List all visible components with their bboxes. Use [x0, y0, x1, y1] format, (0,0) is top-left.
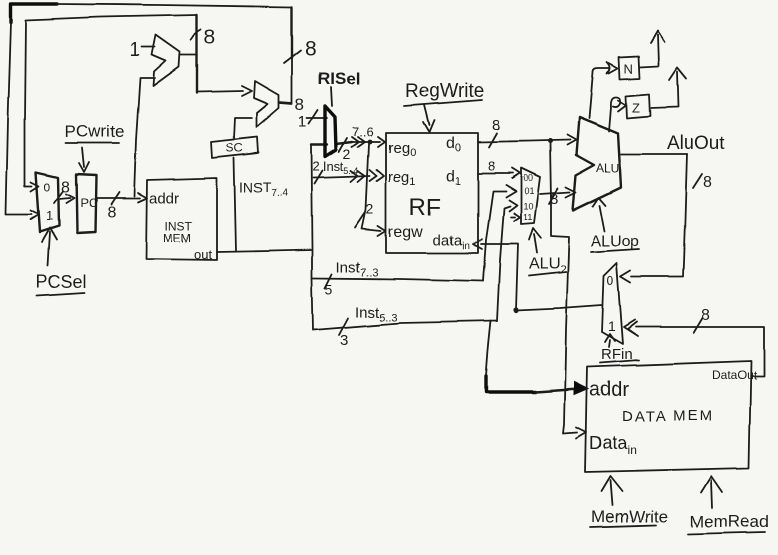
wire adder A2 output with label 8: [279, 95, 304, 114]
flag Z box: [626, 94, 650, 118]
wire instruction bus vertical: [311, 146, 313, 330]
wire ALU2 mux output to ALU input b, width 8: [540, 187, 576, 208]
wire RISel mux input 1: [298, 110, 327, 131]
register file RF: [386, 133, 478, 253]
wire ALU2 mux input 11 stub: [511, 213, 520, 221]
label AluOut: [667, 133, 726, 154]
svg-text:ALU: ALU: [596, 161, 619, 175]
svg-text:1: 1: [130, 40, 141, 61]
wire PC value up to adder A1 lower input: [134, 78, 155, 196]
svg-text:8: 8: [295, 95, 304, 114]
svg-text:PCwrite: PCwrite: [65, 122, 125, 141]
svg-text:RISel: RISel: [318, 69, 361, 88]
svg-text:8: 8: [492, 117, 500, 134]
label Inst 5..3: [355, 304, 398, 324]
label RISel with leader line: [318, 69, 361, 106]
label MemRead with arrow to DATA MEM: [688, 476, 768, 534]
memory DATA MEM: [585, 361, 757, 472]
wire RF reg1 input from bus, Inst 5..4 width 2: [313, 170, 384, 184]
svg-text:PC: PC: [80, 196, 97, 210]
node constant 1 input to adder A1: [130, 40, 155, 61]
register PC: [76, 174, 97, 233]
svg-text:8: 8: [702, 307, 711, 324]
label ALUop with arrow to ALU: [591, 197, 640, 252]
wire SC output to adder A2 lower input: [234, 118, 252, 139]
wire inner feedback loop (PC+1 to PCSel mux input 0): [25, 15, 197, 191]
label MemWrite with arrow to DATA MEM: [590, 476, 668, 527]
label Inst 7..3: [336, 259, 379, 279]
svg-text:MemWrite: MemWrite: [591, 507, 668, 526]
svg-text:out: out: [194, 247, 212, 262]
wire RF d0 to ALU input a, width 8: [478, 117, 576, 147]
svg-text:3: 3: [340, 332, 348, 349]
adder A1 (PC+1): [152, 35, 180, 86]
svg-text:8: 8: [305, 37, 317, 60]
svg-text:2: 2: [366, 201, 374, 217]
mux PCSel (0/1): [36, 172, 59, 232]
wire ALU output AluOut, width 8, to RFin mux input 0: [621, 154, 712, 283]
svg-text:8: 8: [61, 179, 70, 196]
mux RISel (bold): [325, 106, 336, 157]
wire Inst 7..3 from bus to ALU2 mux input 01, width 5: [313, 185, 516, 297]
label PCwrite with arrow to PC: [65, 122, 125, 172]
svg-text:MEM: MEM: [163, 231, 191, 245]
mux RFin (0/1): [602, 263, 623, 344]
wire immediate down to DATA MEM addr (bold): [486, 321, 588, 395]
svg-text:regw: regw: [388, 224, 423, 241]
wire ALU to Z flag: [609, 97, 626, 131]
mux ALU2 (00/01/10/11): [521, 168, 540, 224]
wire N flag output up arrow: [640, 31, 665, 67]
svg-text:addr: addr: [589, 379, 629, 401]
svg-text:Z: Z: [632, 100, 640, 115]
label INST 7..4: [239, 179, 288, 199]
svg-text:8: 8: [204, 27, 215, 49]
wire RISel mux output to RF reg0 width 2, net 7..6: [336, 124, 385, 162]
wire DATA MEM DataOut up to RFin mux input 1, width 8: [624, 307, 764, 376]
svg-text:ALUop: ALUop: [591, 233, 640, 250]
label RFin with arrow to mux: [600, 334, 639, 363]
svg-text:1: 1: [46, 208, 53, 223]
adder A2 (branch target): [254, 81, 279, 127]
svg-text:1: 1: [608, 318, 616, 334]
svg-text:7..6: 7..6: [352, 124, 374, 139]
node bus-width slash 8 on outer loop: [284, 37, 317, 63]
wire PCSel mux output to PC with width 8: [54, 179, 74, 203]
wire adder A1 output with width 8: [180, 27, 215, 55]
svg-text:01: 01: [524, 186, 534, 196]
svg-text:11: 11: [523, 212, 532, 222]
label RegWrite with arrow to RF: [404, 81, 484, 132]
wire Z flag output up arrow: [650, 68, 686, 108]
svg-text:N: N: [624, 61, 633, 76]
wire SC input from instruction bus: [234, 158, 236, 251]
wire Inst 5..3 from bus to ALU2 mux input 10, width 3: [313, 200, 517, 349]
svg-text:00: 00: [523, 173, 533, 183]
svg-text:2: 2: [343, 146, 351, 162]
memory INST MEM: [146, 178, 217, 262]
label ALU2 with arrow to mux: [529, 228, 566, 276]
svg-text:DATA MEM: DATA MEM: [622, 408, 714, 425]
svg-text:1: 1: [298, 114, 307, 131]
svg-text:MemRead: MemRead: [690, 512, 768, 531]
flag N box: [619, 56, 640, 79]
wire reg0 bits down to regw width 2: [355, 144, 386, 236]
wire RISel mux lower input from bus: [311, 144, 327, 146]
svg-text:RegWrite: RegWrite: [405, 81, 484, 102]
block SC (sign extend): [211, 137, 258, 158]
wire outer feedback loop (branch target to PCSel mux input 1): [6, 4, 292, 219]
svg-text:0: 0: [44, 180, 51, 194]
alu ALU: [573, 117, 621, 210]
wire RFin mux output to RF data_in: [473, 239, 602, 313]
svg-text:5: 5: [325, 281, 333, 297]
wire PC output to INST MEM addr with width 8: [96, 192, 147, 221]
wire RF d1 to ALU2 mux input 00, width 8: [478, 158, 520, 178]
svg-text:8: 8: [107, 204, 116, 221]
svg-text:SC: SC: [226, 141, 243, 155]
label 2 Inst 5..4: [312, 159, 359, 176]
svg-text:0: 0: [607, 273, 614, 288]
wire PC+1 down to second adder: [197, 55, 252, 96]
wire d0 down to DATA MEM Data_in: [550, 143, 586, 438]
svg-text:10: 10: [523, 201, 533, 211]
wire INST MEM out to instruction bus: [217, 250, 311, 252]
svg-text:AluOut: AluOut: [667, 133, 726, 154]
label PCSel with arrow to mux: [36, 228, 87, 296]
svg-text:8: 8: [488, 158, 495, 173]
svg-text:PCSel: PCSel: [36, 272, 87, 292]
svg-text:DataOut: DataOut: [712, 368, 757, 382]
svg-text:addr: addr: [149, 190, 179, 207]
wire ALU to N flag: [589, 62, 618, 118]
svg-text:RF: RF: [409, 194, 441, 221]
svg-text:8: 8: [703, 174, 712, 191]
